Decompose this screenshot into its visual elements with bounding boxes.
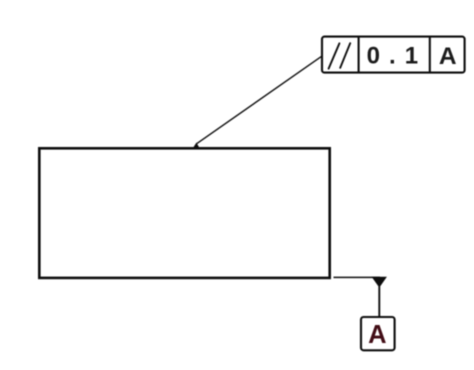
svg-text:A: A [439, 43, 457, 70]
datum feature triangle (filled) [372, 277, 387, 288]
frame divider 1 [358, 37, 360, 73]
wire: datum extension line from part corner [334, 276, 381, 278]
arrowhead on part top surface [192, 143, 200, 150]
feature control frame outer box [322, 37, 465, 73]
wire: datum leader vertical line [378, 287, 380, 318]
svg-text:0 . 1: 0 . 1 [367, 42, 420, 69]
wire: leader line from feature control frame to part surface [197, 56, 322, 144]
svg-text:A: A [368, 321, 386, 349]
datum label box [361, 317, 395, 350]
frame divider 2 [429, 37, 431, 73]
part outline rectangle [39, 148, 329, 278]
parallelism symbol // [329, 43, 351, 68]
